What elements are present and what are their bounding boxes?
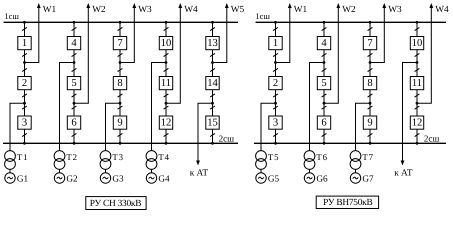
svg-text:13: 13	[207, 38, 218, 49]
wire: breaker chain at x=212.5	[212, 22, 214, 143]
wire: tap to overhead line W4	[417, 7, 431, 103]
node: tap to line W5	[211, 61, 214, 64]
disconnector (slash) 4 of chain	[164, 94, 169, 97]
node: chain joins busbar 1сш	[323, 21, 326, 24]
busbar 1сш (left section)	[4, 21, 239, 23]
node: chain joins busbar 1сш	[119, 21, 122, 24]
breaker 4 (box)	[67, 37, 80, 50]
node: chain joins busbar 2сш	[73, 142, 76, 145]
wire: tap to transformer T2	[60, 63, 75, 151]
wire: breaker chain at x=417	[416, 22, 418, 143]
svg-text:G3: G3	[112, 173, 124, 183]
node: tap to line W3	[369, 61, 372, 64]
svg-text:9: 9	[117, 117, 122, 128]
disconnector (slash) 1 of chain	[322, 27, 327, 30]
svg-text:G2: G2	[66, 173, 78, 183]
generator G5	[256, 173, 266, 183]
node: tap to transformer T3	[119, 102, 122, 105]
line W3 arrow	[382, 3, 386, 8]
disconnector (slash) 2 of chain	[72, 53, 77, 56]
generator G7	[350, 173, 360, 183]
disconnector (slash) 1 of chain	[164, 27, 169, 30]
disconnector (slash) 2 of chain	[273, 53, 278, 56]
disconnector (slash) 3 of chain	[273, 68, 278, 71]
node: tap to transformer T7	[369, 102, 372, 105]
node: chain joins busbar 2сш	[23, 142, 26, 145]
breaker 4 (box)	[317, 37, 330, 50]
transformer T2	[54, 151, 65, 170]
disconnector (slash) 3 of chain	[72, 68, 77, 71]
line W4 arrow	[178, 3, 182, 8]
disconnector (slash) 4 of chain	[210, 94, 215, 97]
disconnector (slash) 5 of chain	[368, 106, 373, 109]
disconnector (slash) 2 of chain	[22, 53, 27, 56]
svg-text:W2: W2	[342, 5, 356, 15]
disconnector (slash) 5 of chain	[22, 106, 27, 109]
wire: breaker chain at x=74	[73, 22, 75, 143]
breaker 10 (box)	[410, 37, 423, 50]
breaker 11 (box)	[410, 77, 423, 90]
node: tap to autotransformer	[416, 61, 419, 64]
disconnector (slash) 6 of chain	[22, 133, 27, 136]
disconnector (slash) 6 of chain	[273, 133, 278, 136]
svg-text:РУ СН 330кВ: РУ СН 330кВ	[90, 199, 141, 209]
disconnector (slash) 5 of chain	[415, 106, 420, 109]
wire: transformer T2 to generator G2	[59, 169, 61, 172]
disconnector (slash) 5 of chain	[164, 106, 169, 109]
node: chain joins busbar 1сш	[23, 21, 26, 24]
svg-text:T3: T3	[112, 152, 123, 162]
wire: tap to transformer T5	[261, 103, 276, 150]
svg-text:W4: W4	[184, 5, 198, 15]
breaker 15 (box)	[206, 116, 219, 129]
svg-text:6: 6	[321, 117, 326, 128]
node: tap to line W4	[165, 102, 168, 105]
node: chain joins busbar 2сш	[119, 142, 122, 145]
node: tap to line W2	[323, 102, 326, 105]
svg-text:к АТ: к АТ	[394, 168, 413, 178]
wire: breaker chain at x=166	[165, 22, 167, 143]
wire: tap to transformer T6	[310, 63, 325, 151]
svg-text:W2: W2	[92, 5, 106, 15]
svg-text:W3: W3	[388, 5, 402, 15]
label box РУ ВН750кВ	[316, 196, 378, 208]
transformer T1	[5, 151, 16, 170]
generator G6	[304, 173, 314, 183]
node: chain joins busbar 2сш	[165, 142, 168, 145]
breaker 5 (box)	[67, 77, 80, 90]
breaker 7 (box)	[363, 37, 376, 50]
disconnector (slash) 1 of chain	[368, 27, 373, 30]
disconnector (slash) 4 of chain	[118, 94, 123, 97]
disconnector (slash) 2 of chain	[322, 53, 327, 56]
svg-text:1: 1	[273, 38, 278, 49]
svg-text:W4: W4	[435, 5, 449, 15]
disconnector (slash) 1 of chain	[210, 27, 215, 30]
wire: tap to transformer T3	[106, 103, 121, 150]
disconnector (slash) 6 of chain	[118, 133, 123, 136]
disconnector (slash) 6 of chain	[322, 133, 327, 136]
disconnector (slash) 3 of chain	[368, 68, 373, 71]
к АТ arrow	[196, 161, 200, 166]
line W2 arrow	[336, 3, 340, 8]
svg-text:W1: W1	[43, 5, 57, 15]
disconnector (slash) 2 of chain	[118, 53, 123, 56]
svg-text:9: 9	[367, 117, 372, 128]
svg-text:8: 8	[367, 78, 372, 89]
node: chain joins busbar 1сш	[211, 21, 214, 24]
svg-text:1сш: 1сш	[4, 11, 19, 21]
wire: transformer T4 to generator G4	[151, 169, 153, 172]
line W2 arrow	[86, 3, 90, 8]
svg-text:1сш: 1сш	[255, 11, 270, 21]
disconnector (slash) 4 of chain	[368, 94, 373, 97]
disconnector (slash) 3 of chain	[415, 68, 420, 71]
node: chain joins busbar 2сш	[274, 142, 277, 145]
wire: tap to transformer T1	[10, 103, 25, 150]
wire: tap to overhead line W2	[324, 7, 338, 103]
node: tap to line W4	[416, 102, 419, 105]
svg-text:2: 2	[22, 78, 27, 89]
disconnector (slash) 5 of chain	[118, 106, 123, 109]
disconnector (slash) 1 of chain	[273, 27, 278, 30]
svg-text:11: 11	[161, 78, 171, 89]
disconnector (slash) 6 of chain	[72, 133, 77, 136]
transformer T7	[350, 151, 361, 170]
svg-text:W3: W3	[138, 5, 152, 15]
breaker 1 (box)	[18, 37, 31, 50]
transformer T6	[304, 151, 315, 170]
line W1 arrow	[37, 3, 41, 8]
node: chain joins busbar 1сш	[274, 21, 277, 24]
disconnector (slash) 4 of chain	[415, 94, 420, 97]
breaker 2 (box)	[269, 77, 282, 90]
disconnector (slash) 1 of chain	[22, 27, 27, 30]
node: tap to transformer T4	[165, 61, 168, 64]
breaker 2 (box)	[18, 77, 31, 90]
disconnector (slash) 5 of chain	[273, 106, 278, 109]
breaker 7 (box)	[113, 37, 126, 50]
breaker 13 (box)	[206, 37, 219, 50]
svg-text:3: 3	[273, 117, 278, 128]
node: tap to transformer T2	[73, 61, 76, 64]
disconnector (slash) 1 of chain	[118, 27, 123, 30]
svg-text:4: 4	[321, 38, 327, 49]
busbar 1сш (right section)	[256, 21, 446, 23]
svg-text:8: 8	[117, 78, 122, 89]
wire: tap к АТ (to autotransformer)	[403, 63, 418, 162]
svg-text:5: 5	[71, 78, 76, 89]
svg-text:G4: G4	[158, 173, 170, 183]
svg-text:2сш: 2сш	[424, 133, 439, 143]
wire: transformer T6 to generator G6	[309, 169, 311, 172]
disconnector (slash) 4 of chain	[322, 94, 327, 97]
line W4 arrow	[429, 3, 433, 8]
disconnector (slash) 6 of chain	[368, 133, 373, 136]
wire: breaker chain at x=275.5	[275, 22, 277, 143]
wire: transformer T7 to generator G7	[355, 169, 357, 172]
node: chain joins busbar 1сш	[369, 21, 372, 24]
svg-text:W5: W5	[231, 5, 245, 15]
svg-text:11: 11	[412, 78, 422, 89]
breaker 12 (box)	[159, 116, 172, 129]
disconnector (slash) 1 of chain	[415, 27, 420, 30]
busbar 2сш (right section)	[254, 142, 446, 144]
svg-text:7: 7	[367, 38, 372, 49]
svg-text:к АТ: к АТ	[190, 168, 209, 178]
svg-text:12: 12	[161, 117, 172, 128]
disconnector (slash) 2 of chain	[164, 53, 169, 56]
disconnector (slash) 5 of chain	[72, 106, 77, 109]
wire: transformer T5 to generator G5	[260, 169, 262, 172]
node: chain joins busbar 1сш	[73, 21, 76, 24]
disconnector (slash) 4 of chain	[273, 94, 278, 97]
к АТ arrow	[401, 161, 405, 166]
breaker 9 (box)	[113, 116, 126, 129]
node: tap to transformer T6	[323, 61, 326, 64]
wire: tap to overhead line W1	[25, 7, 39, 63]
disconnector (slash) 3 of chain	[118, 68, 123, 71]
breaker 12 (box)	[410, 116, 423, 129]
svg-text:G7: G7	[362, 173, 374, 183]
node: tap to line W3	[119, 61, 122, 64]
svg-text:4: 4	[71, 38, 77, 49]
transformer T5	[256, 151, 267, 170]
wire: transformer T3 to generator G3	[105, 169, 107, 172]
disconnector (slash) 1 of chain	[72, 27, 77, 30]
svg-text:14: 14	[207, 78, 218, 89]
svg-text:15: 15	[207, 117, 218, 128]
disconnector (slash) 6 of chain	[164, 133, 169, 136]
node: chain joins busbar 1сш	[165, 21, 168, 24]
breaker 5 (box)	[317, 77, 330, 90]
disconnector (slash) 3 of chain	[164, 68, 169, 71]
breaker 1 (box)	[269, 37, 282, 50]
wire: transformer T1 to generator G1	[9, 169, 11, 172]
svg-text:2: 2	[273, 78, 278, 89]
disconnector (slash) 3 of chain	[22, 68, 27, 71]
generator G4	[146, 173, 156, 183]
line W1 arrow	[288, 3, 292, 8]
disconnector (slash) 3 of chain	[210, 68, 215, 71]
node: chain joins busbar 2сш	[211, 142, 214, 145]
line W5 arrow	[225, 3, 229, 8]
node: chain joins busbar 2сш	[369, 142, 372, 145]
wire: breaker chain at x=370	[369, 22, 371, 143]
svg-text:G5: G5	[268, 173, 280, 183]
svg-text:G6: G6	[316, 173, 328, 183]
wire: tap to overhead line W4	[166, 7, 180, 103]
disconnector (slash) 5 of chain	[322, 106, 327, 109]
node: tap to transformer T1	[23, 102, 26, 105]
wire: tap to overhead line W2	[74, 7, 88, 103]
breaker 8 (box)	[363, 77, 376, 90]
transformer T4	[146, 151, 157, 170]
breaker 3 (box)	[269, 116, 282, 129]
svg-text:T5: T5	[268, 152, 279, 162]
generator G2	[54, 173, 64, 183]
wire: tap к АТ (to autotransformer)	[198, 103, 213, 161]
svg-text:T6: T6	[316, 152, 327, 162]
disconnector (slash) 4 of chain	[22, 94, 27, 97]
node: chain joins busbar 1сш	[416, 21, 419, 24]
svg-text:РУ ВН750кВ: РУ ВН750кВ	[323, 198, 372, 208]
svg-text:W1: W1	[294, 5, 308, 15]
disconnector (slash) 6 of chain	[415, 133, 420, 136]
wire: tap to overhead line W3	[370, 7, 384, 63]
svg-text:5: 5	[321, 78, 326, 89]
wire: tap to overhead line W1	[276, 7, 290, 63]
label box РУ СН 330кВ	[86, 197, 146, 210]
wire: tap to transformer T7	[356, 103, 371, 150]
svg-text:2сш: 2сш	[219, 133, 234, 143]
generator G1	[5, 173, 15, 183]
disconnector (slash) 3 of chain	[322, 68, 327, 71]
breaker 10 (box)	[159, 37, 172, 50]
breaker 3 (box)	[18, 116, 31, 129]
wire: breaker chain at x=120	[119, 22, 121, 143]
svg-text:6: 6	[71, 117, 76, 128]
transformer T3	[100, 151, 111, 170]
svg-text:7: 7	[117, 38, 122, 49]
breaker 9 (box)	[363, 116, 376, 129]
node: chain joins busbar 2сш	[323, 142, 326, 145]
breaker 11 (box)	[159, 77, 172, 90]
node: tap to autotransformer	[211, 102, 214, 105]
svg-text:T2: T2	[66, 152, 77, 162]
disconnector (slash) 2 of chain	[368, 53, 373, 56]
svg-text:T7: T7	[362, 152, 373, 162]
svg-text:T1: T1	[17, 152, 28, 162]
wire: breaker chain at x=24.5	[24, 22, 26, 143]
node: tap to line W2	[73, 102, 76, 105]
node: tap to transformer T5	[274, 102, 277, 105]
svg-text:10: 10	[161, 38, 172, 49]
node: tap to line W1	[274, 61, 277, 64]
svg-text:12: 12	[412, 117, 423, 128]
breaker 6 (box)	[67, 116, 80, 129]
node: chain joins busbar 2сш	[416, 142, 419, 145]
disconnector (slash) 5 of chain	[210, 106, 215, 109]
svg-text:10: 10	[412, 38, 423, 49]
disconnector (slash) 4 of chain	[72, 94, 77, 97]
generator G3	[100, 173, 110, 183]
wire: tap to overhead line W3	[120, 7, 134, 63]
node: tap to line W1	[23, 61, 26, 64]
wire: breaker chain at x=324	[323, 22, 325, 143]
disconnector (slash) 2 of chain	[415, 53, 420, 56]
svg-text:1: 1	[22, 38, 27, 49]
breaker 14 (box)	[206, 77, 219, 90]
breaker 8 (box)	[113, 77, 126, 90]
wire: tap to transformer T4	[152, 63, 167, 151]
disconnector (slash) 6 of chain	[210, 133, 215, 136]
breaker 6 (box)	[317, 116, 330, 129]
line W3 arrow	[132, 3, 136, 8]
busbar 2сш (left section)	[3, 142, 238, 144]
wire: tap to overhead line W5	[213, 7, 227, 63]
disconnector (slash) 2 of chain	[210, 53, 215, 56]
svg-text:3: 3	[22, 117, 27, 128]
svg-text:G1: G1	[17, 173, 29, 183]
svg-text:T4: T4	[158, 152, 169, 162]
